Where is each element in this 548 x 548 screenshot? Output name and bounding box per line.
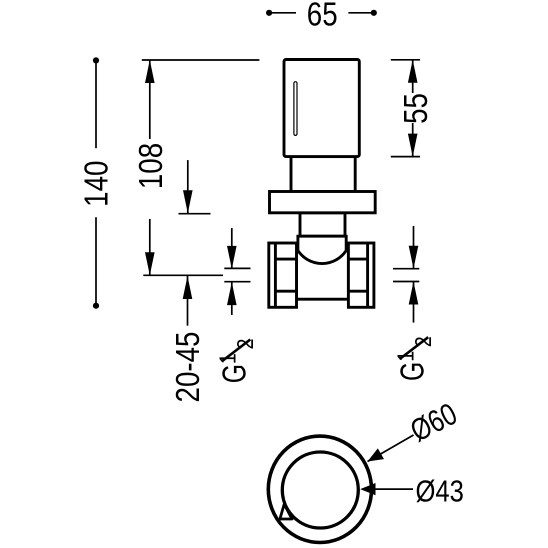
svg-text:Ø43: Ø43: [416, 474, 464, 508]
svg-text:55: 55: [398, 93, 435, 124]
svg-text:65: 65: [307, 0, 338, 33]
svg-text:G: G: [395, 362, 431, 381]
svg-text:140: 140: [78, 161, 115, 207]
svg-text:20-45: 20-45: [170, 332, 207, 403]
svg-text:108: 108: [133, 143, 170, 189]
